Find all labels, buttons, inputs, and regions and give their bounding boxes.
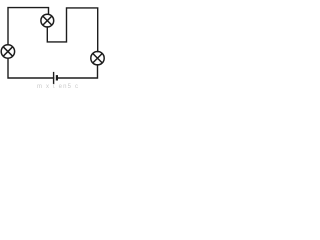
svg-text:m x t en5 c: m x t en5 c: [37, 84, 78, 89]
